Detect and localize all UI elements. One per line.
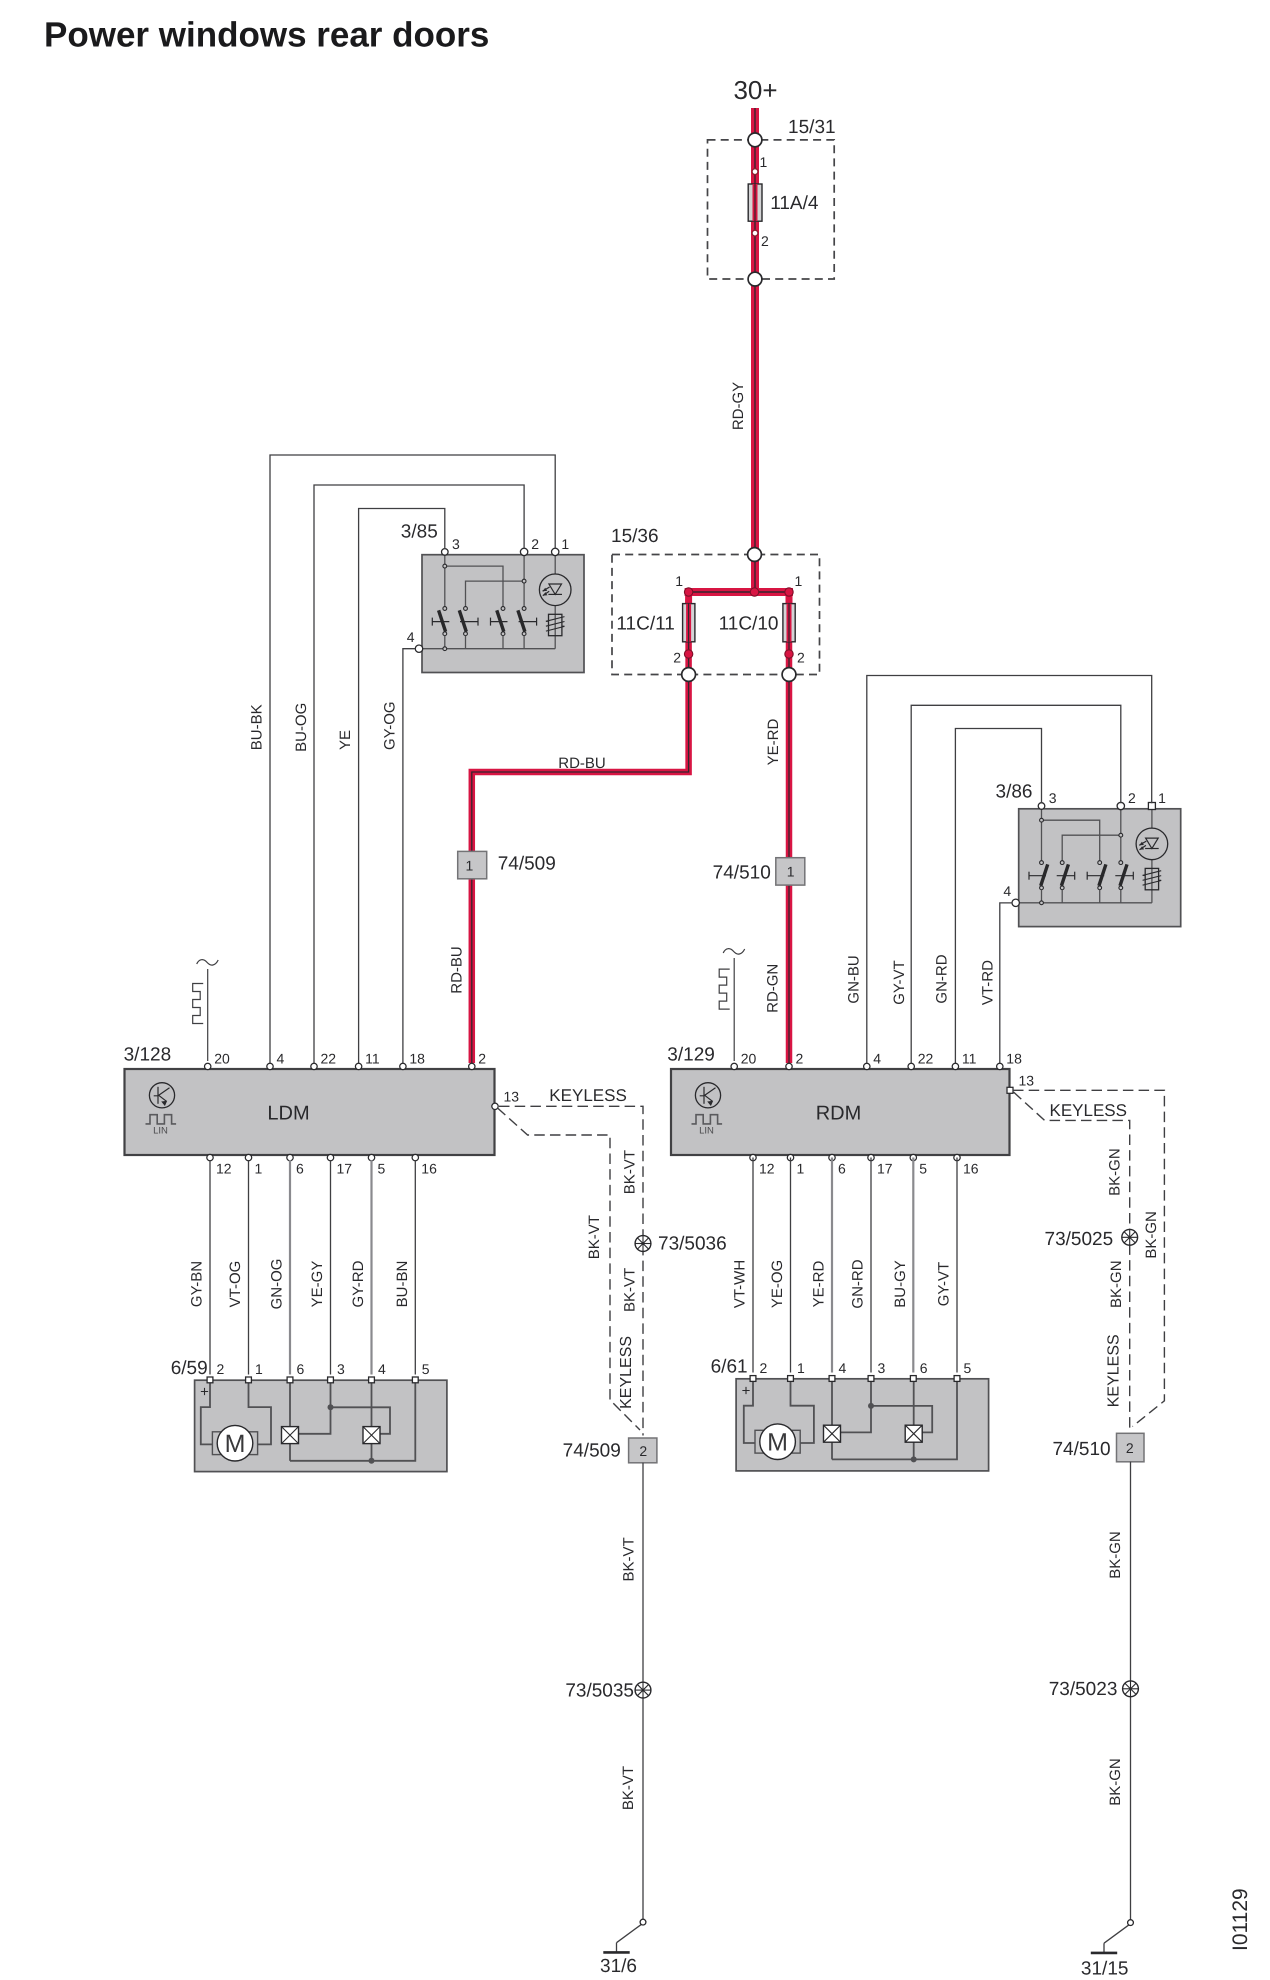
wire VT-RD RDM:18 to 3/86:4 <box>1000 903 1012 1063</box>
svg-text:M: M <box>225 1430 246 1458</box>
inline connector circle on 15/31 top edge <box>748 133 762 147</box>
svg-text:VT-WH: VT-WH <box>732 1260 749 1308</box>
svg-text:11: 11 <box>962 1051 977 1067</box>
svg-text:BK-VT: BK-VT <box>620 1766 637 1810</box>
svg-text:73/5036: 73/5036 <box>658 1234 727 1255</box>
svg-text:GY-BN: GY-BN <box>189 1261 206 1307</box>
fuse 11C/10 <box>783 604 795 642</box>
svg-text:M: M <box>767 1428 788 1456</box>
svg-text:LIN: LIN <box>153 1125 168 1136</box>
svg-text:17: 17 <box>337 1160 353 1176</box>
LIN bus break symbol above RDM pin 20 <box>733 958 735 1061</box>
svg-text:11C/11: 11C/11 <box>616 614 674 635</box>
wire RD main feed from 30+ through 15/31 to 15/36 <box>751 108 759 592</box>
svg-text:BK-GN: BK-GN <box>1106 1148 1123 1196</box>
control module LDM 3/128 (left door module) <box>125 1069 495 1155</box>
svg-text:2: 2 <box>217 1361 225 1377</box>
wire red bus inside 15/36 <box>685 588 793 596</box>
wire GY-OG LDM:18 to 3/85:4 <box>403 649 415 1063</box>
svg-text:73/5025: 73/5025 <box>1045 1229 1114 1250</box>
ground terminal 31/15 <box>1091 1920 1134 1953</box>
svg-text:30+: 30+ <box>733 75 777 105</box>
svg-text:BU-BN: BU-BN <box>394 1261 411 1308</box>
svg-text:13: 13 <box>1019 1072 1035 1088</box>
wire BU-OG LDM:22 to 3/85:2 <box>314 485 524 1063</box>
svg-text:31/15: 31/15 <box>1081 1959 1129 1980</box>
wire YE LDM:11 to 3/85:3 <box>359 509 445 1064</box>
svg-text:6/59: 6/59 <box>171 1358 208 1379</box>
svg-text:3: 3 <box>452 536 460 552</box>
pin 1 of fuse 11A/4 <box>752 169 758 175</box>
wire VT-WH RDM to 6/61 <box>752 1158 754 1373</box>
LIN bus break symbol above LDM pin 20 <box>207 969 209 1061</box>
svg-text:74/510: 74/510 <box>713 862 771 883</box>
switch unit 3/86 window lift rear right <box>1019 809 1181 927</box>
svg-text:BU-OG: BU-OG <box>293 703 310 752</box>
svg-text:VT-RD: VT-RD <box>979 960 996 1005</box>
svg-text:RDM: RDM <box>816 1103 862 1125</box>
wire YE-GY LDM to 6/59 <box>330 1160 332 1375</box>
pin 2 of fuse 11A/4 <box>752 230 758 236</box>
svg-text:1: 1 <box>675 573 683 589</box>
svg-text:4: 4 <box>378 1361 386 1377</box>
svg-text:20: 20 <box>741 1051 757 1067</box>
svg-text:1: 1 <box>255 1160 263 1176</box>
svg-text:GN-RD: GN-RD <box>934 954 951 1003</box>
svg-text:KEYLESS: KEYLESS <box>1050 1101 1128 1120</box>
svg-text:2: 2 <box>761 233 769 249</box>
svg-text:2: 2 <box>760 1360 768 1376</box>
svg-text:15/36: 15/36 <box>611 526 659 547</box>
svg-text:1: 1 <box>797 1360 805 1376</box>
connector circle 15/36 bottom left <box>682 668 696 682</box>
switch unit 3/85 window lift rear left <box>422 555 584 673</box>
svg-text:18: 18 <box>1006 1051 1022 1067</box>
svg-text:GN-BU: GN-BU <box>846 955 863 1003</box>
svg-text:LIN: LIN <box>699 1125 714 1136</box>
svg-text:KEYLESS: KEYLESS <box>549 1086 627 1105</box>
fuse 11C/11 <box>683 604 695 642</box>
svg-text:YE-RD: YE-RD <box>811 1260 828 1307</box>
wire BK-GN dashed branch from RDM pin 13 (lower) <box>1014 1092 1130 1431</box>
svg-text:5: 5 <box>964 1360 972 1376</box>
svg-text:13: 13 <box>504 1088 520 1104</box>
connector circle 15/36 bottom right <box>782 668 796 682</box>
svg-text:+: + <box>200 1384 209 1401</box>
svg-text:BK-VT: BK-VT <box>622 1268 639 1312</box>
svg-text:2: 2 <box>1128 790 1136 806</box>
svg-text:31/6: 31/6 <box>600 1956 637 1977</box>
svg-text:GN-OG: GN-OG <box>269 1259 286 1310</box>
svg-text:73/5023: 73/5023 <box>1049 1679 1118 1700</box>
svg-text:RD-GN: RD-GN <box>765 964 782 1013</box>
wire BU-GY RDM to 6/61 <box>912 1158 914 1373</box>
svg-text:3/86: 3/86 <box>996 782 1033 803</box>
svg-text:2: 2 <box>478 1051 486 1067</box>
svg-text:4: 4 <box>277 1051 285 1067</box>
svg-text:BK-VT: BK-VT <box>620 1537 637 1581</box>
svg-text:74/509: 74/509 <box>498 854 556 875</box>
splice 73/5035 <box>635 1682 651 1698</box>
svg-text:5: 5 <box>422 1361 430 1377</box>
svg-text:GN-RD: GN-RD <box>850 1259 867 1308</box>
svg-text:15/31: 15/31 <box>788 117 836 138</box>
wire GN-RD RDM to 6/61 <box>870 1158 872 1373</box>
splice 73/5036 <box>635 1236 651 1252</box>
svg-text:1: 1 <box>797 1160 805 1176</box>
wire GY-VT RDM:22 to 3/86:2 <box>911 705 1121 1063</box>
svg-text:4: 4 <box>1003 883 1011 899</box>
svg-text:3/128: 3/128 <box>124 1044 172 1065</box>
svg-text:2: 2 <box>639 1443 647 1459</box>
svg-text:6/61: 6/61 <box>711 1357 748 1378</box>
wire VT-OG LDM to 6/59 <box>248 1160 250 1375</box>
svg-text:KEYLESS: KEYLESS <box>1106 1334 1123 1407</box>
svg-text:BK-GN: BK-GN <box>1108 1260 1125 1308</box>
svg-text:11A/4: 11A/4 <box>770 193 819 214</box>
connector 74/510 pin 1 <box>776 858 805 885</box>
svg-text:4: 4 <box>839 1360 847 1376</box>
svg-text:1: 1 <box>561 536 569 552</box>
svg-text:YE-GY: YE-GY <box>309 1261 326 1308</box>
svg-text:1: 1 <box>760 154 768 170</box>
svg-text:4: 4 <box>873 1051 881 1067</box>
svg-text:17: 17 <box>877 1160 893 1176</box>
wire GN-OG LDM to 6/59 <box>289 1160 291 1375</box>
ground terminal 31/6 <box>603 1919 646 1952</box>
svg-text:GY-RD: GY-RD <box>350 1260 367 1307</box>
wire YE-OG RDM to 6/61 <box>790 1158 792 1373</box>
svg-text:RD-GY: RD-GY <box>730 382 747 430</box>
inline connector circle on 15/31 bottom edge <box>748 272 762 286</box>
wire GN-BU RDM:4 to 3/86:1 <box>867 676 1152 1064</box>
wire BK-VT dashed branch from LDM pin 13 (lower) <box>498 1108 641 1430</box>
svg-text:YE-OG: YE-OG <box>769 1260 786 1308</box>
svg-text:3/129: 3/129 <box>667 1044 715 1065</box>
junction circle on 15/36 top edge <box>748 548 762 562</box>
wire KEYLESS dashed from LDM pin 13 (upper) <box>499 1106 643 1435</box>
control module RDM 3/129 (right door module) <box>671 1069 1010 1155</box>
svg-text:74/509: 74/509 <box>563 1441 621 1462</box>
connector 74/509 pin 2 <box>629 1438 657 1463</box>
connector box 15/31 (dashed) <box>708 140 835 279</box>
svg-text:BK-GN: BK-GN <box>1107 1531 1124 1579</box>
svg-text:6: 6 <box>920 1360 928 1376</box>
wire BU-BK LDM:4 to 3/85:1 <box>270 455 555 1063</box>
wire BU-BN LDM to 6/59 <box>414 1160 416 1375</box>
svg-text:Power windows rear doors: Power windows rear doors <box>44 16 489 55</box>
wire GY-BN LDM to 6/59 <box>209 1160 211 1375</box>
svg-text:73/5035: 73/5035 <box>565 1681 634 1702</box>
svg-text:I01129: I01129 <box>1229 1888 1252 1951</box>
splice 73/5025 <box>1122 1229 1138 1245</box>
svg-text:GY-VT: GY-VT <box>936 1262 953 1306</box>
svg-text:RD-BU: RD-BU <box>558 755 606 772</box>
svg-text:YE-RD: YE-RD <box>765 718 782 765</box>
wire YE-RD RDM to 6/61 <box>831 1158 833 1373</box>
svg-text:5: 5 <box>919 1160 927 1176</box>
svg-text:1: 1 <box>795 573 803 589</box>
svg-text:2: 2 <box>1126 1440 1134 1456</box>
wire GY-VT RDM to 6/61 <box>956 1158 958 1373</box>
svg-text:3: 3 <box>1049 790 1057 806</box>
svg-text:2: 2 <box>531 536 539 552</box>
wire RD-BU horizontal+vertical from fuse 11C/11 to LDM pin 2 <box>472 599 689 1063</box>
svg-text:3: 3 <box>337 1361 345 1377</box>
splice 73/5023 <box>1123 1681 1139 1697</box>
svg-text:KEYLESS: KEYLESS <box>618 1336 635 1409</box>
svg-text:18: 18 <box>409 1051 425 1067</box>
svg-text:74/510: 74/510 <box>1052 1439 1110 1460</box>
svg-text:11: 11 <box>365 1051 380 1067</box>
svg-text:BU-BK: BU-BK <box>249 704 266 750</box>
svg-text:4: 4 <box>407 629 415 645</box>
junction dots in 15/36 <box>684 588 692 596</box>
wire GY-RD LDM to 6/59 <box>370 1160 372 1375</box>
wire BK-GN from 74/510 to splice 73/5023 <box>1130 1462 1132 1920</box>
svg-text:+: + <box>742 1382 751 1399</box>
svg-text:16: 16 <box>421 1160 437 1176</box>
svg-text:1: 1 <box>787 864 795 880</box>
wire KEYLESS dashed from RDM pin 13 (upper) <box>1013 1090 1164 1426</box>
svg-text:VT-OG: VT-OG <box>227 1261 244 1308</box>
connector 74/509 pin 1 <box>458 851 487 878</box>
svg-text:BK-VT: BK-VT <box>622 1150 639 1194</box>
svg-text:1: 1 <box>466 857 474 873</box>
svg-text:11C/10: 11C/10 <box>719 614 779 635</box>
svg-text:1: 1 <box>255 1361 263 1377</box>
svg-text:20: 20 <box>214 1051 230 1067</box>
svg-text:BK-GN: BK-GN <box>1143 1211 1160 1259</box>
svg-text:GY-VT: GY-VT <box>891 960 908 1004</box>
svg-text:12: 12 <box>216 1160 232 1176</box>
window lift motor unit 6/59 rear left <box>195 1380 447 1471</box>
svg-text:LDM: LDM <box>267 1103 309 1125</box>
svg-text:1: 1 <box>1158 790 1166 806</box>
svg-text:5: 5 <box>378 1160 386 1176</box>
svg-text:6: 6 <box>297 1361 305 1377</box>
svg-text:3/85: 3/85 <box>401 522 438 543</box>
svg-text:YE: YE <box>337 730 354 750</box>
svg-text:22: 22 <box>321 1051 337 1067</box>
window lift motor unit 6/61 rear right <box>736 1379 989 1471</box>
svg-text:22: 22 <box>918 1051 934 1067</box>
svg-text:16: 16 <box>963 1160 979 1176</box>
svg-text:6: 6 <box>838 1160 846 1176</box>
wire GN-RD RDM:11 to 3/86:3 <box>955 729 1041 1064</box>
fuse 11A/4 <box>748 184 762 221</box>
svg-text:BK-GN: BK-GN <box>1107 1758 1124 1806</box>
svg-text:2: 2 <box>796 1051 804 1067</box>
svg-text:6: 6 <box>296 1160 304 1176</box>
wire YE-RD / RD-GN from fuse 11C/10 to RDM pin 2 <box>786 599 793 1063</box>
svg-text:RD-BU: RD-BU <box>449 946 466 994</box>
wire BK-VT from 74/509 to splice 73/5035 <box>642 1463 644 1919</box>
svg-text:12: 12 <box>759 1160 775 1176</box>
connector 74/510 pin 2 <box>1117 1433 1145 1462</box>
svg-text:GY-OG: GY-OG <box>382 701 399 750</box>
svg-text:3: 3 <box>878 1360 886 1376</box>
fuse box 15/36 (dashed) <box>612 555 820 675</box>
svg-text:2: 2 <box>797 650 805 666</box>
svg-text:BU-GY: BU-GY <box>892 1260 909 1308</box>
svg-text:BK-VT: BK-VT <box>586 1215 603 1259</box>
svg-text:2: 2 <box>673 650 681 666</box>
